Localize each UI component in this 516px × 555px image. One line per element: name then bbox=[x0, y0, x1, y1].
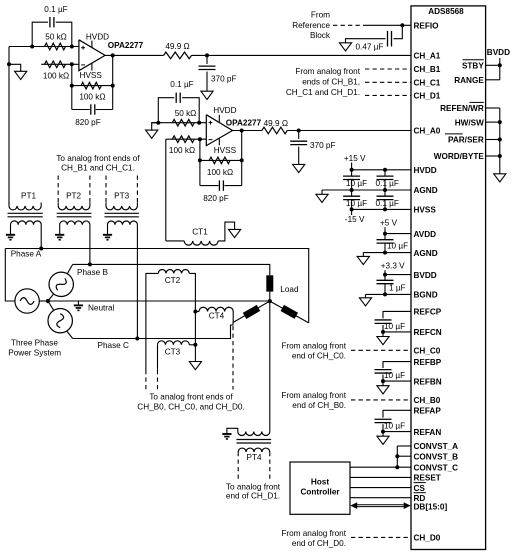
ground PT1 primary bbox=[6, 235, 15, 240]
label +15 V bbox=[344, 154, 366, 163]
label 49.9 ohm 1 bbox=[165, 42, 189, 51]
node STBY junction bbox=[498, 63, 502, 67]
label BVDD right bbox=[487, 48, 510, 57]
ground REFBN bbox=[377, 386, 389, 394]
label 10 uF AVDD bbox=[387, 242, 408, 251]
svg-text:CT3: CT3 bbox=[165, 348, 181, 357]
ground 370pF-1 bbox=[201, 91, 213, 99]
wire HVDD stub 1 bbox=[91, 41, 93, 48]
node load center bbox=[268, 299, 272, 303]
node BVDD junction bbox=[383, 273, 387, 277]
wire CONVST_B bbox=[397, 455, 411, 457]
wire CT4 left lead bbox=[195, 311, 199, 313]
wire CH_D0 dashed bbox=[351, 536, 411, 538]
svg-text:+15 V: +15 V bbox=[344, 154, 366, 163]
wire stage2 cap branch bbox=[158, 98, 199, 123]
wire REFBN line bbox=[383, 375, 411, 381]
resistor 50 k 1 bbox=[45, 43, 66, 50]
svg-text:From analog front: From analog front bbox=[295, 67, 360, 76]
ground 370pF-2 bbox=[293, 164, 305, 172]
wire HVSS line bbox=[352, 208, 411, 210]
wire stage1 feedback resistor line bbox=[72, 85, 113, 87]
svg-text:REFEN/WR: REFEN/WR bbox=[440, 104, 484, 113]
wire REFAP line bbox=[383, 410, 411, 417]
svg-text:HVDD: HVDD bbox=[86, 32, 109, 41]
svg-text:REFAP: REFAP bbox=[414, 407, 442, 416]
label CT1 bbox=[192, 228, 208, 237]
capacitor 370 pF 2 bbox=[290, 141, 307, 144]
svg-text:CH_C1: CH_C1 bbox=[414, 79, 441, 88]
svg-text:CT2: CT2 bbox=[165, 276, 181, 285]
wire +15V stub bbox=[351, 163, 353, 170]
label from analog front end CH_B0 bbox=[281, 391, 346, 410]
label 370 pF 1 bbox=[211, 75, 237, 84]
label 0.47 uF bbox=[356, 42, 384, 51]
node REFIO junction bbox=[400, 23, 404, 27]
wire PT4 secondary dashed leads bbox=[238, 452, 270, 482]
svg-text:HVDD: HVDD bbox=[414, 166, 437, 175]
svg-text:end of CH_B0.: end of CH_B0. bbox=[292, 401, 346, 410]
svg-text:10 µF: 10 µF bbox=[384, 422, 405, 431]
node CH_A1 filter node bbox=[205, 53, 209, 57]
node stage1 +input/ground junction bbox=[7, 62, 11, 66]
label Host Controller bbox=[300, 477, 340, 496]
svg-text:0.1 µF: 0.1 µF bbox=[44, 5, 67, 14]
svg-text:end of CH_D1.: end of CH_D1. bbox=[226, 492, 280, 501]
wire DB[15:0] bus arrow bbox=[350, 502, 410, 509]
wire REFAN line bbox=[383, 424, 411, 431]
wire HVSS stub 2 bbox=[218, 138, 220, 145]
resistor 49.9 ohm 2 bbox=[262, 127, 287, 134]
capacitor 10 uF HVSS bbox=[343, 190, 360, 209]
label WR overline bbox=[470, 101, 484, 103]
label 100 k feedback 1 bbox=[79, 93, 105, 102]
node AGND j2 bbox=[383, 188, 387, 192]
svg-text:Load: Load bbox=[280, 285, 299, 294]
svg-text:REFAN: REFAN bbox=[414, 428, 442, 437]
node stage2 output bbox=[240, 129, 244, 133]
node PT3 Phase C junction bbox=[135, 337, 139, 341]
node stage2 feedback res right bbox=[240, 158, 244, 162]
label 820 pF 1 bbox=[75, 118, 101, 127]
wire REFAN gnd stub bbox=[382, 432, 384, 437]
node AVDD junction bbox=[383, 232, 387, 236]
label 0.1 uF 2 bbox=[170, 80, 193, 89]
svg-text:PAR/SER: PAR/SER bbox=[448, 136, 484, 145]
ground REFCN bbox=[377, 337, 389, 345]
node source center bbox=[46, 299, 50, 303]
svg-text:0.1 µF: 0.1 µF bbox=[376, 179, 399, 188]
label Neutral bbox=[88, 304, 115, 313]
resistor 100 k feedback 2 bbox=[209, 157, 230, 164]
wire RD bbox=[350, 497, 411, 499]
label Load bbox=[280, 285, 299, 294]
capacitor 0.47 uF bbox=[388, 31, 392, 47]
label +3.3 V bbox=[381, 262, 405, 271]
label from analog front end CH_C0 bbox=[281, 342, 346, 361]
svg-text:CH_A0: CH_A0 bbox=[414, 127, 441, 136]
capacitor 10 uF HVDD bbox=[343, 170, 360, 190]
resistor 49.9 ohm 1 bbox=[164, 52, 192, 59]
label PT1 bbox=[21, 191, 36, 200]
svg-text:Neutral: Neutral bbox=[88, 304, 115, 313]
wire AVDD line bbox=[385, 233, 411, 235]
wire REFCN line bbox=[383, 325, 411, 332]
svg-text:REFCN: REFCN bbox=[414, 328, 442, 337]
label Phase C bbox=[98, 341, 129, 350]
wire source C to Phase C bbox=[67, 331, 73, 339]
wire load left diagonal bbox=[233, 301, 270, 322]
node AGND2 junction bbox=[383, 251, 387, 255]
wire BVDD to STBY RANGE bbox=[486, 58, 500, 80]
node REFAN junction bbox=[381, 430, 385, 434]
resistor 100 k feedback 1 bbox=[81, 82, 101, 89]
label 100 k input 2 bbox=[169, 146, 195, 155]
wire REFCN gnd stub bbox=[382, 332, 384, 337]
svg-text:49.9 Ω: 49.9 Ω bbox=[264, 119, 288, 128]
label 10 uF REFC bbox=[384, 322, 405, 331]
wire CONVST bus vertical bbox=[396, 446, 398, 467]
svg-text:+3.3 V: +3.3 V bbox=[381, 262, 405, 271]
ground CT common bbox=[189, 362, 201, 370]
label from analog front ends CH_B1 CH_C1 CH_D1 bbox=[286, 67, 361, 97]
node HW/SW junction bbox=[498, 120, 502, 124]
ground PT3 primary bbox=[103, 235, 112, 240]
svg-text:RESET: RESET bbox=[414, 474, 441, 483]
wire center to source C bbox=[48, 301, 54, 310]
label to analog front ends CH_B0 CH_C0 CH_D0 bbox=[137, 393, 244, 412]
node BGND junction bbox=[383, 292, 387, 296]
label 10 uF HVSS bbox=[346, 199, 367, 208]
wire REFIO dashed bbox=[333, 24, 366, 26]
node stage1 output bbox=[111, 53, 115, 57]
node CT3 common junction bbox=[193, 343, 197, 347]
svg-text:REFBN: REFBN bbox=[414, 377, 442, 386]
svg-text:100 kΩ: 100 kΩ bbox=[207, 168, 233, 177]
svg-text:Phase A: Phase A bbox=[11, 249, 42, 258]
node stage2 R-C right junction bbox=[197, 121, 201, 125]
transformer PT4 bbox=[237, 432, 272, 453]
wire HVSS stub 1 bbox=[91, 63, 93, 70]
transformer CT4 bbox=[199, 307, 233, 311]
node REFCN junction bbox=[381, 330, 385, 334]
node WORD/BYTE junction bbox=[498, 154, 502, 158]
svg-text:0.1 µF: 0.1 µF bbox=[376, 199, 399, 208]
svg-text:Phase B: Phase B bbox=[77, 268, 108, 277]
wire load center to PT4 bbox=[269, 301, 271, 431]
capacitor 820 pF 1 bbox=[91, 104, 95, 114]
wire source A to center bbox=[39, 300, 48, 302]
label ADS8568 left pin names bbox=[414, 22, 459, 543]
node PT1 Phase A junction bbox=[39, 247, 43, 251]
wire CH_D1 dashed bbox=[365, 94, 411, 96]
wire stage1 cap branch bbox=[32, 22, 72, 46]
label HVDD 1 bbox=[86, 32, 109, 41]
wire BVDD line bbox=[385, 274, 411, 276]
IC U2 ADS8568 outline bbox=[411, 6, 486, 550]
svg-text:CH_B1: CH_B1 bbox=[414, 65, 441, 74]
node HVSS j1 bbox=[350, 207, 354, 211]
svg-text:10 µF: 10 µF bbox=[346, 179, 367, 188]
svg-text:CONVST_B: CONVST_B bbox=[414, 452, 459, 461]
label RD overline bbox=[414, 492, 426, 494]
svg-text:To analog front ends of: To analog front ends of bbox=[56, 154, 140, 163]
ground CT1 bbox=[229, 229, 241, 237]
node HVDD cap junction bbox=[383, 168, 387, 172]
wire stage1 ground branch bbox=[9, 64, 21, 71]
svg-text:10 µF: 10 µF bbox=[384, 371, 405, 380]
label CS overline bbox=[414, 482, 426, 484]
wire CONVST_A bbox=[397, 445, 411, 447]
transformer PT3 bbox=[105, 203, 139, 235]
wire AGND2 line bbox=[363, 252, 411, 254]
label STBY overline bbox=[463, 59, 484, 61]
svg-text:50 kΩ: 50 kΩ bbox=[175, 109, 197, 118]
resistor 100 k input 2 bbox=[172, 136, 194, 143]
capacitor 10 uF REFB bbox=[375, 370, 392, 373]
svg-text:RD: RD bbox=[414, 494, 426, 503]
wire stage2 feedback right vertical bbox=[241, 131, 243, 186]
wire BGND gnd stub bbox=[365, 294, 367, 297]
wire REFCP line bbox=[383, 311, 411, 318]
wire Neutral gnd stub bbox=[77, 301, 79, 305]
capacitor 10 uF REFC bbox=[375, 320, 392, 323]
svg-text:CH_D1: CH_D1 bbox=[414, 92, 441, 101]
svg-text:+5 V: +5 V bbox=[380, 219, 398, 228]
wire center to source B bbox=[48, 294, 54, 301]
label 0.1 uF HVSS bbox=[376, 199, 399, 208]
label +5 V bbox=[380, 219, 398, 228]
label 370 pF 2 bbox=[310, 141, 336, 150]
node CH_A0 filter node bbox=[297, 129, 301, 133]
wire AGND line bbox=[322, 189, 411, 191]
transformer CT2 bbox=[158, 270, 189, 274]
svg-text:HVSS: HVSS bbox=[214, 146, 237, 155]
label CT4 bbox=[209, 311, 225, 320]
node CT4 common junction bbox=[193, 310, 197, 314]
capacitor 10 uF REFA bbox=[375, 419, 392, 422]
impedance load phase A-branch bbox=[243, 305, 260, 319]
label ADS8568 title bbox=[428, 7, 464, 16]
svg-text:BGND: BGND bbox=[414, 291, 438, 300]
svg-text:BVDD: BVDD bbox=[487, 48, 510, 57]
wire CT2 output dashed bbox=[145, 370, 147, 390]
svg-text:end of CH_D0.: end of CH_D0. bbox=[292, 539, 346, 548]
ground REFAN bbox=[377, 436, 389, 444]
wire CT2 left lead bbox=[146, 273, 158, 370]
node stage1 feedback res right bbox=[111, 84, 115, 88]
svg-text:Phase C: Phase C bbox=[98, 341, 129, 350]
svg-text:CONVST_A: CONVST_A bbox=[414, 442, 459, 451]
label PT3 bbox=[114, 191, 129, 200]
label From Reference Block bbox=[292, 11, 331, 40]
svg-text:50 kΩ: 50 kΩ bbox=[45, 33, 67, 42]
label Phase A bbox=[11, 249, 42, 258]
svg-text:CH_B0, CH_C0, and CH_D0.: CH_B0, CH_C0, and CH_D0. bbox=[137, 403, 244, 412]
ground AGND2 bbox=[357, 256, 369, 264]
svg-text:CH_B0: CH_B0 bbox=[414, 396, 441, 405]
label 0.1 uF HVDD bbox=[376, 179, 399, 188]
node HVSS j2 bbox=[383, 207, 387, 211]
wire CT1 left lead to stage2 bbox=[166, 139, 184, 241]
wire stage2 feedback resistor line bbox=[200, 159, 242, 161]
wire PT1 primary to Phase A bbox=[40, 225, 42, 249]
svg-text:CH_B1 and CH_C1.: CH_B1 and CH_C1. bbox=[61, 164, 135, 173]
ground stage2 input ground bbox=[146, 130, 158, 138]
svg-text:CH_C1 and CH_D1.: CH_C1 and CH_D1. bbox=[286, 88, 360, 97]
node stage2 feedback junction bbox=[198, 137, 202, 141]
svg-text:OPA2277: OPA2277 bbox=[226, 118, 262, 127]
svg-text:CH_A1: CH_A1 bbox=[414, 52, 441, 61]
wire stage2 feedback left vertical bbox=[199, 139, 201, 185]
capacitor 0.1 uF HVDD bbox=[377, 170, 394, 190]
svg-text:Controller: Controller bbox=[300, 487, 340, 496]
svg-text:10 µF: 10 µF bbox=[384, 322, 405, 331]
ground AGND bbox=[316, 194, 328, 202]
wire CT3 left lead bbox=[157, 345, 159, 370]
node PT2 Phase B junction bbox=[88, 262, 92, 266]
svg-text:RANGE: RANGE bbox=[454, 76, 484, 85]
wire REFIO solid bbox=[366, 24, 411, 26]
label 10 uF HVDD bbox=[346, 179, 367, 188]
resistor 100 k input 1 bbox=[45, 61, 66, 68]
wire CH_B0 dashed bbox=[351, 399, 411, 401]
capacitor 0.1 uF 1 bbox=[50, 17, 54, 27]
op-amp U1A OPA2277 bbox=[79, 40, 105, 71]
wire CT4 right lead bbox=[232, 312, 234, 323]
label 50 k 1 bbox=[45, 33, 67, 42]
transformer CT1 bbox=[184, 241, 218, 245]
svg-text:OPA2277: OPA2277 bbox=[108, 41, 144, 50]
svg-text:AGND: AGND bbox=[414, 186, 438, 195]
svg-text:PT2: PT2 bbox=[66, 191, 81, 200]
op-amp U1B OPA2277 bbox=[206, 115, 232, 146]
wire 370pF-2 vertical bbox=[298, 131, 300, 165]
wire CT2 right lead bbox=[189, 273, 195, 344]
ground BGND bbox=[359, 298, 371, 306]
wire RESET bbox=[350, 476, 411, 478]
label 0.1 uF 1 bbox=[44, 5, 67, 14]
svg-text:CS: CS bbox=[414, 484, 426, 493]
transformer PT1 bbox=[8, 203, 43, 235]
label 49.9 ohm 2 bbox=[264, 119, 288, 128]
svg-text:820 pF: 820 pF bbox=[75, 118, 101, 127]
svg-text:100 kΩ: 100 kΩ bbox=[43, 72, 69, 81]
ground Neutral bbox=[74, 305, 83, 310]
ground PT2 primary bbox=[55, 235, 64, 240]
capacitor 0.1 uF 2 bbox=[176, 93, 180, 103]
wire stage1 output to RC filter bbox=[105, 54, 411, 56]
capacitor 10 uF AVDD bbox=[377, 234, 394, 253]
wire CT3 output dashed bbox=[157, 370, 159, 390]
AC source A bbox=[15, 289, 39, 313]
node AGND j1 bbox=[350, 188, 354, 192]
capacitor 0.1 uF HVSS bbox=[377, 190, 394, 209]
wire stage1 inverting input line bbox=[41, 63, 79, 65]
svg-text:CH_D0: CH_D0 bbox=[414, 534, 441, 543]
wire CONVST_C bbox=[350, 466, 411, 468]
wire HVDD stub 2 bbox=[218, 115, 220, 122]
svg-text:PT1: PT1 bbox=[21, 191, 36, 200]
svg-text:end of CH_C0.: end of CH_C0. bbox=[292, 352, 346, 361]
label from analog front end CH_D0 bbox=[281, 529, 346, 548]
svg-text:Block: Block bbox=[310, 31, 331, 40]
label HVSS 2 bbox=[214, 146, 237, 155]
node stage2 feedback res left bbox=[198, 158, 202, 162]
wire stage1 feedback cap line bbox=[72, 109, 113, 111]
svg-text:370 pF: 370 pF bbox=[211, 75, 237, 84]
svg-text:CT1: CT1 bbox=[192, 228, 208, 237]
svg-text:820 pF: 820 pF bbox=[203, 194, 229, 203]
wire CT4 output dashed bbox=[232, 326, 234, 390]
wire load right diagonal bbox=[270, 301, 309, 323]
svg-text:CONVST_C: CONVST_C bbox=[414, 463, 459, 472]
svg-text:HW/SW: HW/SW bbox=[455, 118, 484, 127]
svg-text:0.1 µF: 0.1 µF bbox=[170, 80, 193, 89]
svg-text:To analog front: To analog front bbox=[226, 482, 281, 491]
wire stage1 non-inverting input from PT1 secondary bbox=[8, 47, 10, 205]
svg-text:10 µF: 10 µF bbox=[346, 199, 367, 208]
transformer CT3 bbox=[158, 341, 190, 345]
resistor 50 k 2 bbox=[172, 119, 194, 126]
ground right-side pins bbox=[494, 174, 506, 182]
wire +5V stub bbox=[384, 227, 386, 233]
svg-text:-15 V: -15 V bbox=[345, 215, 365, 224]
svg-text:HVDD: HVDD bbox=[213, 106, 236, 115]
wire Phase B line bbox=[73, 264, 270, 275]
svg-text:PT3: PT3 bbox=[114, 191, 129, 200]
svg-text:Host: Host bbox=[311, 477, 329, 486]
svg-text:AVDD: AVDD bbox=[414, 230, 437, 239]
wire CT common ground stub bbox=[194, 345, 196, 362]
wire REFBP line bbox=[383, 362, 411, 368]
svg-text:BVDD: BVDD bbox=[414, 271, 437, 280]
label op-amp U1B OPA2277 bbox=[226, 118, 262, 127]
wire source B to Phase B bbox=[67, 264, 72, 273]
wire PT3 secondary dashed leads bbox=[106, 176, 137, 203]
svg-text:Power System: Power System bbox=[8, 349, 61, 358]
svg-text:REFIO: REFIO bbox=[414, 22, 440, 31]
ground 0.47uF bbox=[339, 43, 351, 51]
svg-text:CH_C0: CH_C0 bbox=[414, 347, 441, 356]
label 820 pF 2 bbox=[203, 194, 229, 203]
svg-text:CT4: CT4 bbox=[209, 311, 225, 320]
wire BGND line bbox=[366, 293, 412, 295]
label 10 uF REFB bbox=[384, 371, 405, 380]
capacitor 370 pF 1 bbox=[199, 66, 216, 69]
label HVSS 1 bbox=[80, 71, 103, 80]
label Phase B bbox=[77, 268, 108, 277]
label HVDD 2 bbox=[213, 106, 236, 115]
impedance load phase B bbox=[266, 275, 273, 291]
svg-text:WORD/BYTE: WORD/BYTE bbox=[434, 152, 485, 161]
svg-text:To analog front ends of: To analog front ends of bbox=[149, 393, 233, 402]
wire REFEN bus bbox=[486, 108, 500, 174]
label Three Phase Power System bbox=[8, 338, 61, 357]
AC source C bbox=[48, 309, 72, 333]
wire AGND2 gnd stub bbox=[362, 253, 364, 257]
capacitor 820 pF 2 bbox=[219, 180, 223, 190]
wire REFBN gnd stub bbox=[382, 381, 384, 386]
wire stage2 feedback cap line bbox=[200, 185, 242, 187]
label PT2 bbox=[66, 191, 81, 200]
wire 370pF-1 vertical bbox=[206, 55, 208, 91]
label CT3 bbox=[165, 348, 181, 357]
node REFBN junction bbox=[381, 379, 385, 383]
label to analog front end CH_D1 bbox=[226, 482, 281, 500]
wire CH_C0 dashed bbox=[351, 349, 411, 351]
wire CS bbox=[350, 487, 411, 489]
